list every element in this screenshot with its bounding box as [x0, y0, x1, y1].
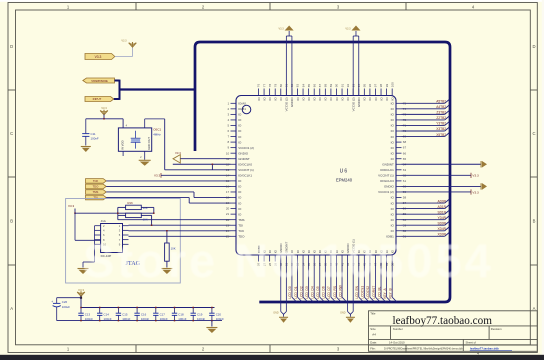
svg-text:88: 88 — [324, 84, 328, 88]
svg-text:LCD_D5: LCD_D5 — [316, 286, 320, 298]
svg-text:LCD_D2: LCD_D2 — [299, 286, 303, 298]
pin 67 (IO) — [391, 146, 407, 150]
svg-text:VCCIO1 (2): VCCIO1 (2) — [238, 146, 254, 150]
wire net AD1R — [402, 205, 450, 209]
wire thick feeder — [114, 80, 195, 100]
svg-text:85: 85 — [307, 84, 311, 88]
pin 49 (IO) — [385, 249, 389, 266]
wire gnd stem — [211, 321, 213, 327]
pin 32 (IO) — [290, 249, 294, 266]
wire osc in stub — [122, 151, 124, 156]
svg-text:95: 95 — [363, 84, 367, 88]
wire gnd drop — [348, 262, 354, 317]
svg-text:14-Oct-2010: 14-Oct-2010 — [389, 341, 405, 345]
pin 44 (IO) — [357, 249, 361, 266]
wire — [106, 192, 230, 198]
wire vcc net — [402, 174, 472, 176]
pin 96 (IO) — [368, 84, 372, 101]
wire — [106, 198, 230, 204]
wire cap rail top — [81, 307, 215, 309]
svg-text:D: D — [532, 44, 535, 49]
svg-text:22: 22 — [226, 218, 230, 222]
pin 90 (IO) — [335, 84, 339, 101]
svg-text:V3.3: V3.3 — [345, 28, 351, 31]
pin 30 (GNDIO) — [279, 243, 283, 266]
svg-text:63: 63 — [403, 168, 407, 172]
svg-text:X3TB2: X3TB2 — [436, 127, 446, 131]
wire net A5TB2 — [402, 100, 450, 104]
pin 88 (IO) — [324, 84, 328, 101]
pin 58 (IO) — [391, 196, 407, 200]
svg-text:83: 83 — [296, 84, 300, 88]
pin 91 (IO) — [340, 84, 344, 101]
svg-text:100nF: 100nF — [178, 317, 186, 321]
wire net A4TB2 — [402, 105, 450, 109]
pin 94 (GNDIO) — [357, 84, 361, 108]
svg-text:65: 65 — [403, 157, 407, 161]
pin 79 (IO) — [273, 84, 277, 101]
pin 76 (IO) — [257, 84, 261, 101]
ground — [340, 312, 355, 323]
svg-text:GNDINT: GNDINT — [382, 162, 394, 166]
svg-text:TDI: TDI — [238, 223, 243, 227]
wire — [106, 180, 230, 182]
svg-text:100nF: 100nF — [122, 317, 130, 321]
svg-text:58: 58 — [403, 196, 407, 200]
pin 23 (TDI) — [226, 223, 243, 227]
pin 16 (IO) — [226, 185, 242, 189]
svg-text:100nF: 100nF — [141, 317, 149, 321]
svg-text:Store No.105054: Store No.105054 — [83, 234, 494, 287]
svg-text:GND: GND — [340, 312, 346, 315]
svg-text:C13: C13 — [85, 312, 91, 316]
svg-text:86: 86 — [312, 84, 316, 88]
pin 37 (IO) — [318, 249, 322, 266]
JTAG section box — [66, 199, 181, 284]
svg-text:84: 84 — [301, 84, 305, 88]
svg-text:TMS: TMS — [238, 218, 244, 222]
port TMS — [86, 190, 107, 195]
svg-text:11: 11 — [226, 157, 229, 161]
wire net LCD_EN — [355, 262, 364, 303]
wire gnd net — [402, 163, 482, 165]
pin 84 (IO) — [301, 84, 305, 101]
svg-text:U6: U6 — [340, 169, 349, 175]
wire net Z2TB2 — [402, 116, 450, 120]
power port V3.3 — [471, 173, 479, 178]
svg-text:GNDINT: GNDINT — [238, 157, 250, 161]
ground arrow — [481, 161, 487, 168]
wire net LCDRST — [372, 262, 381, 303]
svg-text:10K: 10K — [143, 206, 148, 210]
svg-text:96: 96 — [368, 84, 372, 88]
port V3.3 — [85, 54, 115, 60]
svg-text:4MHz: 4MHz — [153, 132, 161, 136]
capacitor C18 — [172, 307, 187, 322]
svg-text:V3.3: V3.3 — [121, 40, 127, 43]
pin 10 (GNDIO) — [226, 151, 249, 155]
svg-text:76: 76 — [257, 84, 261, 88]
svg-text:14: 14 — [226, 173, 230, 177]
pin 36 (IO) — [312, 249, 316, 266]
junction — [103, 118, 105, 120]
pin 20 (IO) — [226, 207, 242, 211]
svg-text:GND: GND — [273, 312, 279, 315]
wire net X3TB2 — [402, 127, 450, 131]
pin 57 (IO) — [391, 201, 407, 205]
capacitor C15 — [116, 307, 131, 322]
wire v3.3 to c26 — [57, 298, 81, 308]
ground arrow — [481, 183, 487, 190]
wire net LCD_BL — [377, 262, 386, 303]
pin 66 (IO) — [391, 151, 407, 155]
pin 3 (IO) — [228, 112, 243, 116]
pin 46 (IO) — [368, 249, 372, 266]
svg-text:R16: R16 — [128, 201, 134, 205]
capacitor C19 — [191, 307, 206, 322]
svg-text:89: 89 — [329, 84, 333, 88]
wire net LCD_D4 — [311, 262, 320, 303]
svg-text:100nF: 100nF — [104, 317, 112, 321]
svg-text:LCD_D6: LCD_D6 — [322, 286, 326, 298]
pin 19 (IO) — [226, 201, 242, 205]
port TDI — [86, 195, 107, 200]
svg-text:Date:: Date: — [370, 341, 377, 345]
svg-text:TDI: TDI — [93, 196, 98, 200]
pin 61 (IO/GCLK3) — [380, 179, 407, 183]
pin 47 (IO) — [374, 249, 378, 266]
svg-text:C11: C11 — [91, 132, 96, 136]
svg-text:13: 13 — [226, 168, 230, 172]
power net V3.3 — [68, 204, 75, 213]
oscillator OSC1 — [118, 125, 151, 160]
svg-text:Sheet of: Sheet of — [466, 341, 477, 345]
svg-text:EPM240: EPM240 — [336, 178, 353, 183]
pin 14 (IO/GCLK1) — [226, 173, 253, 177]
svg-text:LCDCS1: LCDCS1 — [361, 286, 365, 299]
svg-text:IO/GCLK1: IO/GCLK1 — [238, 174, 252, 178]
junction — [117, 212, 155, 226]
svg-text:LCD_D4: LCD_D4 — [311, 286, 315, 298]
label EPM240 — [336, 178, 353, 183]
pin 80 (IO) — [279, 84, 283, 101]
capacitor C14 — [97, 307, 112, 322]
wire gnd net — [402, 185, 482, 187]
svg-text:98: 98 — [379, 84, 383, 88]
svg-text:V3.3: V3.3 — [154, 174, 161, 178]
svg-text:VCCIO (2): VCCIO (2) — [351, 97, 355, 111]
pin 92 (IO) — [346, 84, 350, 101]
svg-text:C16: C16 — [141, 312, 147, 316]
svg-text:A4TB2: A4TB2 — [436, 105, 446, 109]
junction — [166, 230, 168, 232]
svg-text:79: 79 — [273, 84, 277, 88]
white top margin — [0, 0, 544, 2]
wire j1a gnd — [83, 226, 95, 268]
pin 93 (VCCIO (2)) — [351, 84, 355, 112]
svg-text:Size: Size — [370, 327, 376, 331]
wire net LCD_D2 — [299, 262, 308, 303]
svg-text:67: 67 — [403, 146, 407, 150]
capacitor C16 — [134, 307, 149, 322]
port TDO — [86, 184, 107, 189]
label title leafboy77.taobao.com — [393, 315, 493, 327]
svg-text:D: D — [10, 44, 13, 49]
ground — [81, 147, 91, 153]
svg-text:91: 91 — [340, 84, 344, 88]
svg-text:IO/DCLK1: IO/DCLK1 — [380, 168, 394, 172]
pin 7 (IO) — [228, 135, 243, 139]
pin 71 (IO) — [391, 124, 407, 128]
op-amp U6 body — [236, 96, 396, 256]
svg-text:File:: File: — [370, 347, 376, 351]
wire vccint rail — [165, 119, 231, 170]
svg-text:J1A: J1A — [101, 219, 106, 223]
svg-text:100nF: 100nF — [197, 317, 205, 321]
wire net XD4R — [402, 227, 450, 231]
svg-text:leafboy77.taobao.com: leafboy77.taobao.com — [393, 315, 493, 327]
svg-text:16: 16 — [226, 185, 230, 189]
wire jtag v3.3 row — [75, 212, 154, 214]
svg-text:23: 23 — [226, 223, 230, 227]
port INPUT — [85, 97, 114, 102]
pin 73 (IO) — [391, 112, 407, 116]
svg-text:GNDIO: GNDIO — [238, 151, 249, 155]
svg-text:TMS: TMS — [93, 190, 99, 194]
svg-text:V3.3: V3.3 — [68, 204, 75, 208]
pin 54 (IO) — [391, 218, 407, 222]
wire net Z3TB2 — [402, 111, 450, 115]
pin 39 (IO) — [329, 249, 333, 266]
pin 75 (IO) — [391, 101, 407, 105]
svg-text:AD0R: AD0R — [437, 199, 446, 203]
wire net SD0R — [402, 221, 450, 225]
pin 13 (VCCINT (1)) — [226, 168, 254, 172]
svg-text:TCK: TCK — [93, 179, 99, 183]
label drawn file blue — [470, 346, 512, 350]
junction — [74, 212, 76, 214]
svg-text:Revision: Revision — [491, 327, 502, 331]
svg-text:AD1R: AD1R — [437, 205, 446, 209]
pin 45 (IO) — [363, 249, 367, 266]
svg-text:+: + — [51, 300, 53, 304]
svg-text:Z2TB2: Z2TB2 — [436, 116, 446, 120]
pin 70 (IO) — [391, 129, 407, 133]
wire v3.3 down — [75, 213, 101, 240]
svg-text:LCD_RS: LCD_RS — [333, 286, 337, 299]
svg-text:C: C — [10, 131, 13, 136]
wire net KEY_B — [388, 262, 397, 303]
wire net LCDCS2 — [366, 262, 375, 303]
pin 51 (IO/B1) — [386, 234, 406, 238]
pin 89 (IO) — [329, 84, 333, 101]
wire jtag tms row — [118, 215, 231, 219]
pin 97 (IO) — [374, 84, 378, 101]
pin 83 (IO) — [296, 84, 300, 101]
pin 53 (IO) — [391, 223, 407, 227]
svg-text:A4: A4 — [372, 332, 376, 336]
power symbol V3.3 — [345, 26, 360, 31]
ground osc — [139, 151, 151, 166]
svg-text:21: 21 — [226, 212, 230, 216]
svg-text:97: 97 — [374, 84, 378, 88]
svg-text:LCDCS2: LCDCS2 — [366, 286, 370, 299]
svg-text:C19: C19 — [197, 312, 203, 316]
svg-text:Number: Number — [393, 327, 403, 331]
pin 27 (IO) — [262, 249, 266, 266]
wire vcc pair — [353, 31, 359, 96]
wire net XD0R — [402, 233, 450, 237]
svg-text:99: 99 — [385, 84, 389, 88]
svg-text:68: 68 — [403, 140, 407, 144]
power port V3.3 — [471, 189, 479, 194]
title block — [369, 311, 538, 352]
capacitor C20 — [209, 307, 224, 322]
bottom dark strip — [0, 355, 544, 360]
pin 74 (IO) — [391, 107, 407, 111]
pin 33 (IO) — [296, 249, 300, 266]
resistor R16 — [118, 201, 154, 213]
svg-text:V3.3: V3.3 — [175, 151, 181, 155]
svg-text:100: 100 — [390, 82, 394, 87]
pin 43 (VCCIO (1)) — [351, 239, 355, 266]
white right margin — [542, 0, 544, 360]
svg-text:INPUT: INPUT — [93, 97, 102, 101]
wire net YD4R — [402, 216, 450, 220]
port TCK — [86, 179, 107, 184]
svg-text:80: 80 — [279, 84, 283, 88]
wire — [115, 48, 133, 57]
svg-text:V3.3: V3.3 — [101, 106, 107, 110]
pin 100 (IO) — [390, 82, 394, 101]
capacitor C26 — [51, 298, 70, 321]
pin 26 (IO/B0) — [257, 245, 261, 266]
ground — [161, 269, 172, 275]
svg-text:87: 87 — [318, 84, 322, 88]
pin 6 (IO) — [228, 129, 243, 133]
svg-text:61: 61 — [403, 179, 407, 183]
wire net LCD_RS — [333, 262, 342, 303]
svg-text:TCK: TCK — [238, 229, 244, 233]
svg-text:19: 19 — [226, 201, 230, 205]
svg-text:66: 66 — [403, 151, 407, 155]
svg-text:C14: C14 — [104, 312, 110, 316]
svg-text:C20: C20 — [216, 312, 222, 316]
connector J1A — [95, 219, 129, 258]
svg-text:100nF: 100nF — [160, 317, 168, 321]
wire net Y3TB2 — [402, 122, 450, 126]
pin 60 (GNDIO) — [384, 185, 407, 189]
label OSC1 — [153, 128, 161, 137]
power port V3.3 bracket — [154, 173, 230, 178]
pin 77 (IO) — [262, 84, 266, 101]
svg-text:15: 15 — [226, 179, 230, 183]
capacitor C11 — [82, 119, 99, 146]
svg-text:KEY_B: KEY_B — [388, 288, 392, 298]
svg-text:12: 12 — [226, 162, 230, 166]
svg-text:GNDIO: GNDIO — [290, 97, 294, 108]
svg-text:92: 92 — [346, 84, 350, 88]
pin 5 (IO) — [228, 124, 243, 128]
svg-text:GNDIO: GNDIO — [357, 97, 361, 108]
svg-text:VCCIO1 (2): VCCIO1 (2) — [378, 190, 394, 194]
svg-text:LCD_D3: LCD_D3 — [305, 286, 309, 298]
junction — [80, 297, 82, 299]
pin 24 (TCK) — [226, 229, 244, 233]
svg-text:C26: C26 — [62, 300, 68, 304]
svg-text:SD1R: SD1R — [437, 210, 446, 214]
pin 48 (IO) — [379, 249, 383, 266]
svg-text:10: 10 — [226, 151, 230, 155]
wire cap rail bottom — [57, 320, 222, 322]
svg-text:D:\PROTEL99\Datasheet\PROTEL 9: D:\PROTEL99\Datasheet\PROTEL 99se\MyDesi… — [384, 348, 463, 351]
pin 17 (IO) — [226, 190, 242, 194]
svg-text:IO/GCLK0: IO/GCLK0 — [238, 162, 252, 166]
svg-text:IO/B1: IO/B1 — [238, 107, 246, 111]
svg-text:100nF: 100nF — [216, 317, 224, 321]
pin 1 (IO/A0) — [228, 101, 247, 105]
wire net X5TB2 — [402, 133, 450, 137]
svg-text:LCDRST: LCDRST — [372, 286, 376, 299]
wire net AD0R — [402, 199, 450, 203]
svg-text:C18: C18 — [178, 312, 184, 316]
svg-text:IO/GCLK3: IO/GCLK3 — [380, 179, 394, 183]
svg-text:18: 18 — [226, 196, 230, 200]
svg-text:LCD_RW: LCD_RW — [338, 285, 342, 298]
wire jtag tck row — [129, 230, 231, 232]
ground — [273, 312, 288, 323]
pin 40 (IO) — [335, 249, 339, 266]
svg-text:100nF: 100nF — [91, 136, 99, 140]
svg-text:Z3TB2: Z3TB2 — [436, 111, 446, 115]
power symbol V3.3 — [278, 26, 293, 31]
svg-text:V3.3: V3.3 — [95, 55, 102, 59]
pin 59 (VCCIO1 (2)) — [378, 190, 406, 194]
wire net KEY_A — [383, 262, 392, 303]
svg-text:17: 17 — [226, 190, 230, 194]
wire gnd drop — [281, 262, 287, 317]
svg-text:LCD_D7: LCD_D7 — [327, 286, 331, 298]
pin 31 (GNDINT) — [285, 242, 289, 267]
pin 28 (IO) — [268, 249, 272, 266]
label JTAG — [126, 260, 141, 267]
bus ring — [195, 42, 450, 302]
pin 18 (IO) — [226, 196, 242, 200]
pin 2 (IO/B1) — [228, 107, 247, 111]
svg-text:B: B — [533, 219, 536, 224]
junction — [212, 164, 214, 166]
svg-text:VCCINT (1): VCCINT (1) — [238, 168, 254, 172]
ground — [206, 328, 217, 334]
pin 15 (IO) — [226, 179, 242, 183]
wire net LCD_D0 — [288, 262, 297, 303]
resistor R15 — [118, 213, 152, 221]
wire vcc pair — [286, 31, 292, 96]
pin 86 (IO) — [312, 84, 316, 101]
svg-text:77: 77 — [262, 84, 266, 88]
svg-text:C17: C17 — [160, 312, 166, 316]
wire — [106, 185, 230, 187]
pin 98 (IO) — [379, 84, 383, 101]
pin 72 (IO) — [391, 118, 407, 122]
svg-text:OSC1: OSC1 — [153, 128, 161, 132]
pin 52 (IO) — [391, 229, 407, 233]
pin 56 (IO) — [391, 207, 407, 211]
capacitor C17 — [153, 307, 168, 322]
pin 22 (TMS) — [226, 218, 245, 222]
pin 21 (IO) — [226, 212, 242, 216]
pin 4 (IO) — [228, 118, 243, 122]
